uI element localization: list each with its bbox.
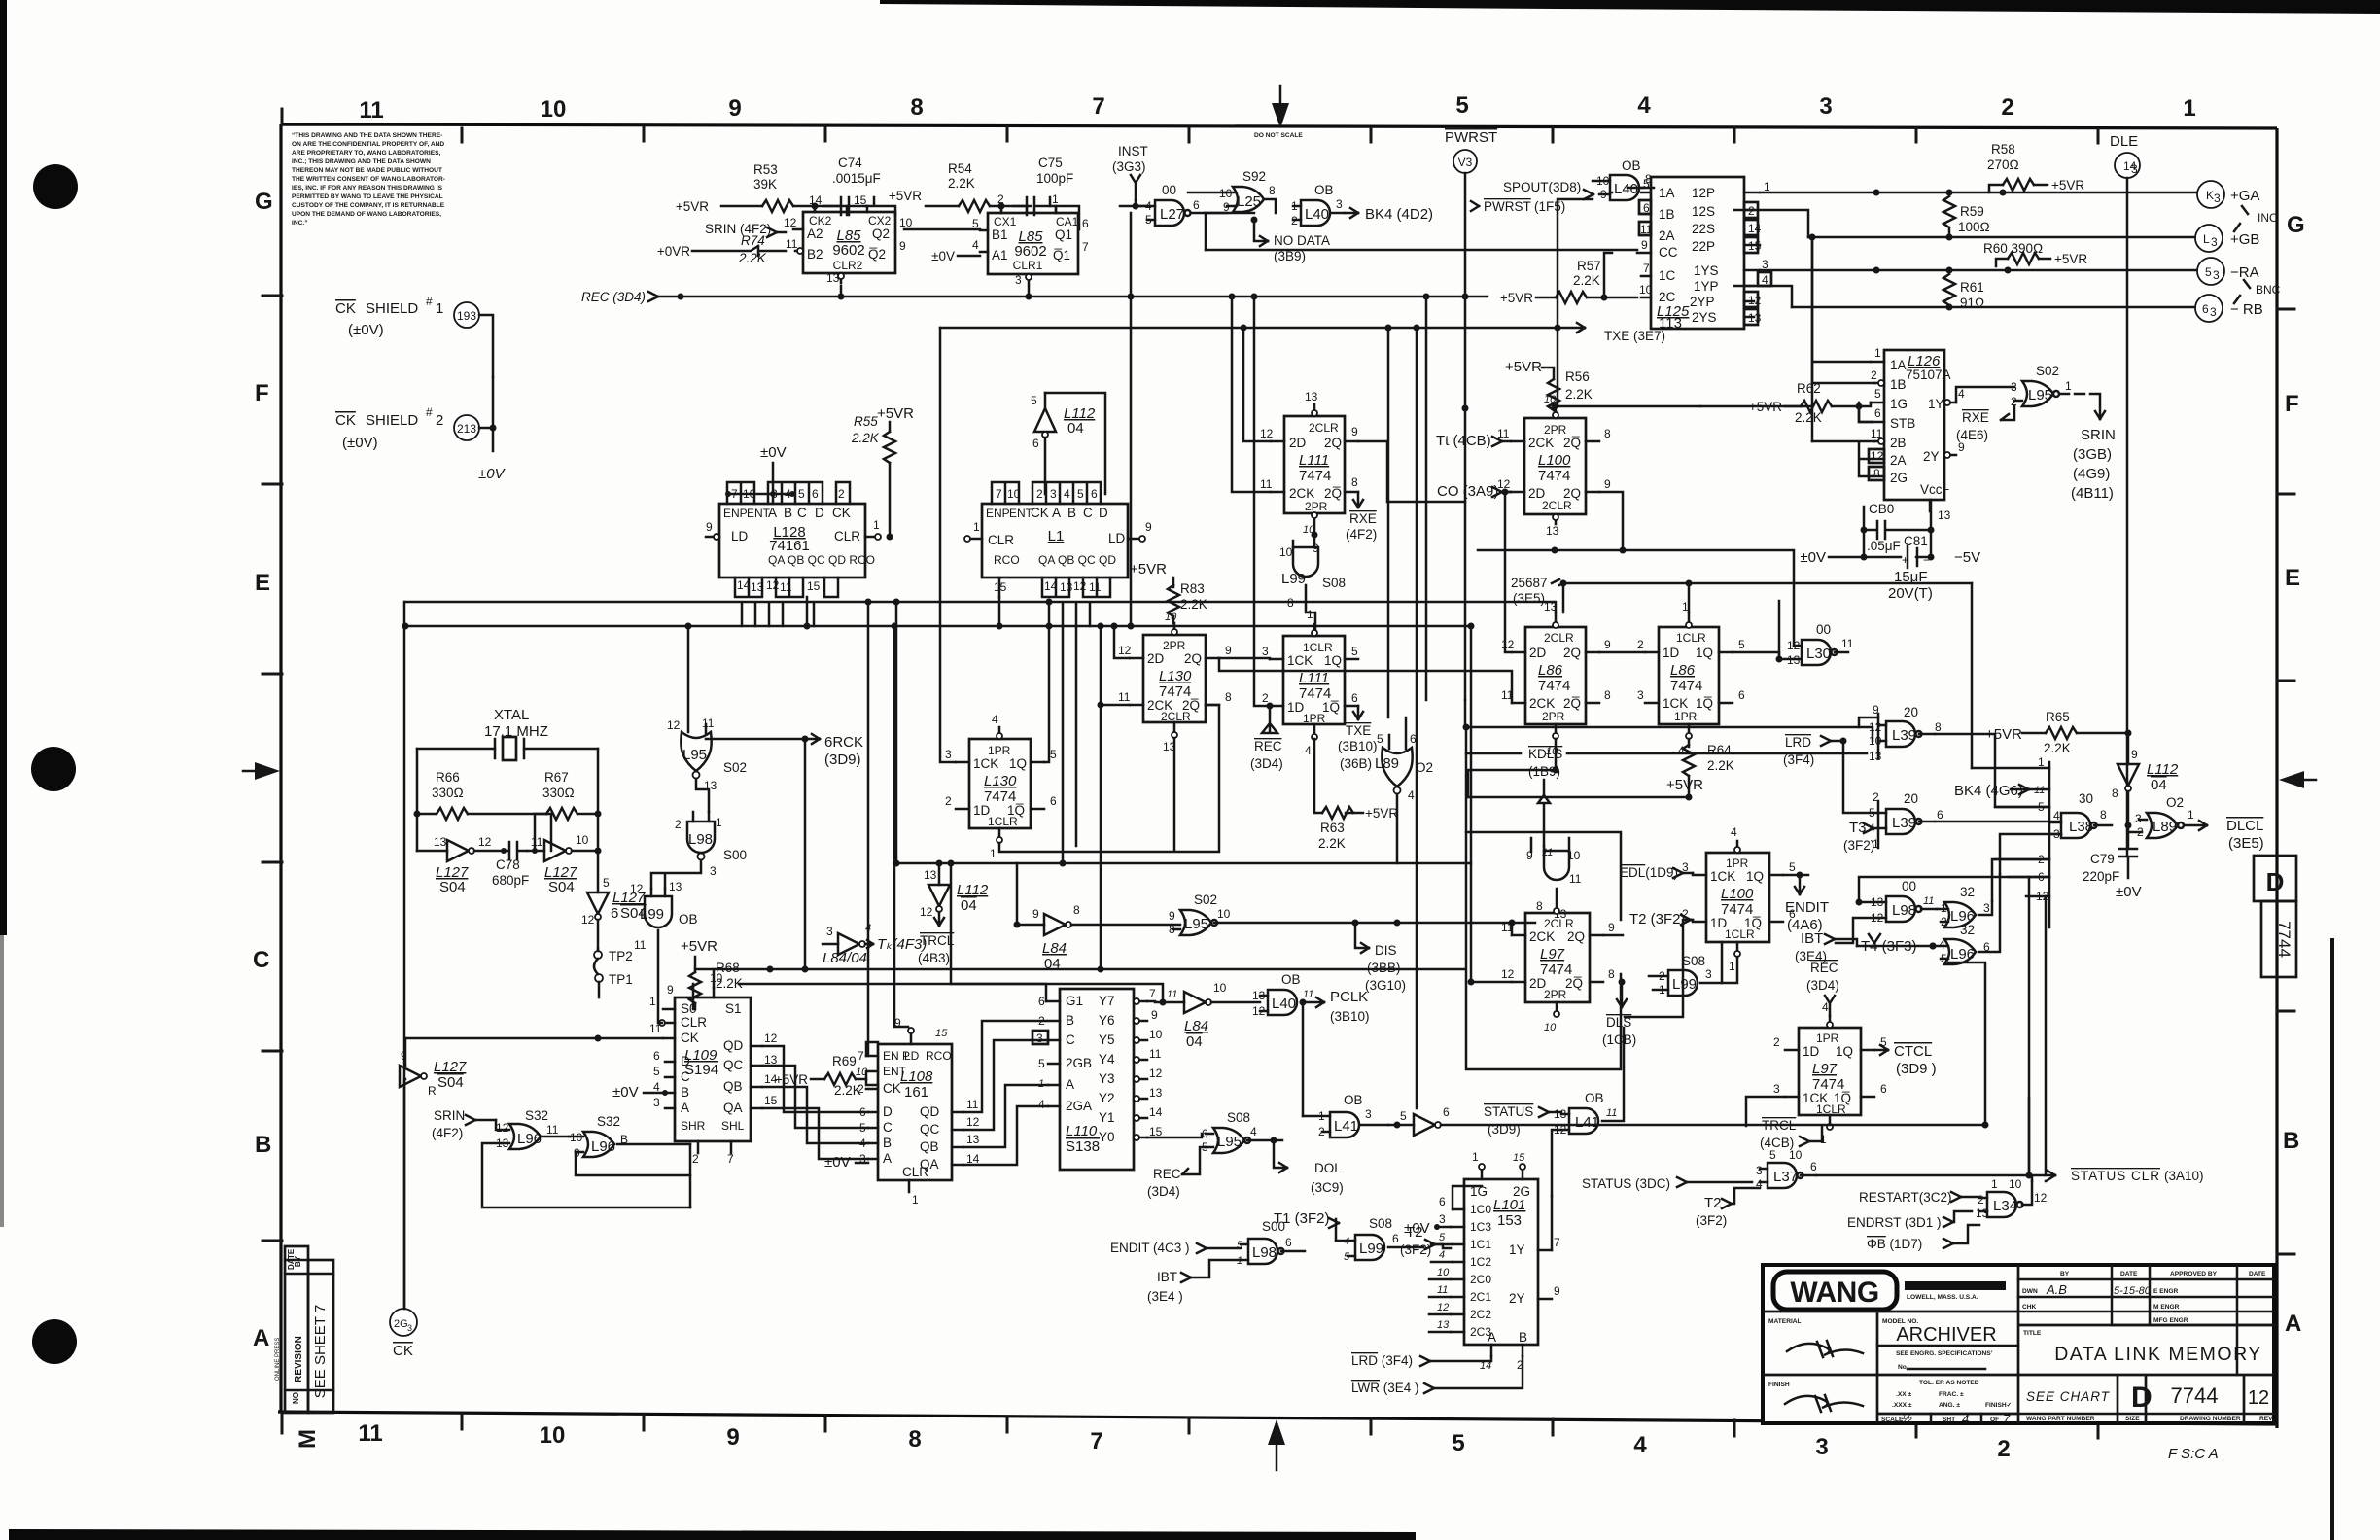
wire IBT T4 joins bbox=[1857, 945, 1933, 948]
wire DLCL line up to L96d bbox=[1948, 962, 1985, 1125]
svg-text:(3D9 ): (3D9 ) bbox=[1896, 1061, 1937, 1077]
svg-text:Y2: Y2 bbox=[1099, 1091, 1115, 1105]
node RESTART(3C2) bbox=[1859, 1190, 1979, 1205]
svg-text:(3F2): (3F2) bbox=[1843, 838, 1874, 853]
NOR L95 #2 vertical bbox=[667, 626, 747, 792]
svg-text:A: A bbox=[253, 1325, 269, 1351]
NOR L95 S08 (DOL) bbox=[1202, 1110, 1282, 1154]
svg-text:LD: LD bbox=[904, 1049, 920, 1063]
svg-text:.0015μF: .0015μF bbox=[832, 171, 881, 186]
wire L100a 2Q out bbox=[1599, 492, 1623, 550]
svg-text:3: 3 bbox=[2213, 268, 2220, 282]
svg-text:9: 9 bbox=[706, 520, 713, 534]
svg-text:4: 4 bbox=[1731, 825, 1737, 839]
node LRD (3F4) bbox=[1783, 735, 1847, 767]
svg-text:“THIS DRAWING AND THE DATA SHO: “THIS DRAWING AND THE DATA SHOWN THERE- bbox=[292, 132, 442, 139]
svg-text:+5VR: +5VR bbox=[676, 199, 709, 214]
wire L130a CLR joins bbox=[999, 705, 1219, 852]
svg-text:1: 1 bbox=[2038, 755, 2045, 769]
svg-text:M: M bbox=[295, 1429, 321, 1449]
svg-text:B: B bbox=[2283, 1128, 2299, 1154]
svg-text:V3: V3 bbox=[1458, 156, 1473, 169]
svg-text:LD: LD bbox=[731, 529, 749, 543]
svg-text:12: 12 bbox=[1871, 449, 1884, 463]
node KDLS (1B9) bbox=[1528, 747, 1562, 846]
wire L108 QD to L110 B bbox=[963, 1021, 1046, 1112]
svg-text:8: 8 bbox=[1536, 899, 1543, 913]
svg-text:STATUS: STATUS bbox=[1484, 1104, 1533, 1119]
svg-text:2: 2 bbox=[1036, 487, 1043, 501]
svg-text:(3B10): (3B10) bbox=[1338, 739, 1378, 753]
svg-text:11: 11 bbox=[780, 580, 792, 594]
svg-text:CK: CK bbox=[1031, 506, 1049, 520]
svg-text:1: 1 bbox=[436, 300, 443, 317]
svg-text:9: 9 bbox=[2131, 748, 2138, 761]
svg-text:2PR: 2PR bbox=[1305, 500, 1328, 513]
svg-text:10: 10 bbox=[1217, 907, 1231, 921]
svg-text:5: 5 bbox=[1738, 638, 1745, 651]
svg-text:20: 20 bbox=[1904, 791, 1918, 806]
svg-text:2CLR: 2CLR bbox=[1309, 421, 1339, 435]
svg-text:Q̅1: Q̅1 bbox=[1053, 248, 1070, 262]
svg-text:ENDRST (3D1 ): ENDRST (3D1 ) bbox=[1847, 1215, 1942, 1230]
node PWRST (1F5) out bbox=[1471, 199, 1565, 214]
svg-text:(±0V): (±0V) bbox=[348, 322, 384, 338]
svg-text:5: 5 bbox=[653, 1065, 660, 1078]
svg-text:L99: L99 bbox=[1359, 1241, 1383, 1257]
svg-text:IES, INC. IF FOR ANY REASON TH: IES, INC. IF FOR ANY REASON THIS DRAWING… bbox=[292, 185, 443, 192]
svg-text:1A: 1A bbox=[1659, 186, 1675, 200]
wire L108 QC to L110 C bbox=[963, 1040, 1048, 1130]
svg-text:2PR: 2PR bbox=[1544, 988, 1567, 1001]
svg-text:2: 2 bbox=[436, 412, 443, 429]
svg-text:2D: 2D bbox=[1147, 651, 1165, 666]
svg-text:LRD (3F4): LRD (3F4) bbox=[1351, 1353, 1413, 1368]
svg-text:7474: 7474 bbox=[1299, 468, 1331, 484]
svg-text:7: 7 bbox=[1149, 987, 1156, 1000]
node RXE (4F2) bbox=[1346, 492, 1377, 542]
wire L39b out to L38 pin4 bbox=[1935, 821, 2061, 823]
svg-text:PCLK: PCLK bbox=[1330, 989, 1368, 1005]
node REC (3D4) upper bbox=[1806, 961, 1839, 1016]
inverter L84 #2 bbox=[1014, 863, 1181, 972]
flip-flop L130 7474 (lowest) bbox=[945, 713, 1057, 860]
svg-text:2: 2 bbox=[1871, 368, 1877, 382]
svg-text:CK2: CK2 bbox=[809, 214, 832, 227]
svg-text:5: 5 bbox=[1455, 92, 1468, 119]
svg-text:FRAC. ±: FRAC. ± bbox=[1939, 1391, 1964, 1398]
svg-text:7474: 7474 bbox=[1538, 678, 1570, 694]
svg-text:2CLR: 2CLR bbox=[1542, 499, 1572, 512]
svg-text:LOWELL, MASS. U.S.A.: LOWELL, MASS. U.S.A. bbox=[1907, 1294, 1978, 1301]
svg-text:12P: 12P bbox=[1692, 186, 1715, 200]
shift register L109 S194 bbox=[649, 971, 778, 1166]
svg-text:(3GB): (3GB) bbox=[2073, 446, 2112, 463]
svg-text:TP1: TP1 bbox=[609, 972, 633, 987]
svg-text:2A: 2A bbox=[1659, 228, 1675, 243]
svg-text:D: D bbox=[815, 506, 824, 520]
svg-text:2Q: 2Q bbox=[1184, 651, 1202, 666]
svg-text:R65: R65 bbox=[2046, 710, 2070, 724]
svg-text:13: 13 bbox=[1060, 580, 1073, 594]
svg-text:R: R bbox=[428, 1084, 437, 1098]
flip-flop L86 7474 (left) bbox=[1501, 600, 1611, 757]
svg-text:6: 6 bbox=[1285, 1236, 1292, 1249]
svg-text:L110: L110 bbox=[1066, 1123, 1098, 1139]
svg-text:L38: L38 bbox=[2069, 819, 2093, 835]
svg-text:C: C bbox=[253, 947, 269, 973]
svg-text:A1: A1 bbox=[992, 248, 1008, 262]
node BK4 (4D2) out bbox=[1345, 206, 1433, 223]
svg-text:12: 12 bbox=[478, 835, 492, 849]
AND L99 #1 vertical bbox=[1293, 547, 1318, 577]
svg-text:ENDIT (4C3 ): ENDIT (4C3 ) bbox=[1110, 1241, 1190, 1255]
svg-text:7: 7 bbox=[1643, 262, 1650, 275]
svg-text:+5VR: +5VR bbox=[2051, 178, 2084, 192]
svg-text:(4E6): (4E6) bbox=[1956, 428, 1988, 442]
svg-text:Q2: Q2 bbox=[872, 227, 890, 241]
svg-text:DLE: DLE bbox=[2110, 133, 2138, 150]
svg-text:13: 13 bbox=[924, 868, 937, 882]
svg-text:1A: 1A bbox=[1890, 358, 1907, 372]
svg-text:+0VR: +0VR bbox=[657, 244, 690, 259]
svg-text:6: 6 bbox=[2202, 302, 2209, 316]
svg-text:2CLR: 2CLR bbox=[1544, 631, 1574, 645]
wire long vertical x1467 bbox=[1425, 297, 1428, 700]
svg-text:6: 6 bbox=[1810, 1160, 1817, 1173]
wire L86a 2Q to L86b 1D bbox=[1599, 651, 1645, 654]
svg-text:L95: L95 bbox=[2028, 387, 2052, 403]
node SRIN (3GB)(4G9)(4B11) bbox=[2059, 394, 2116, 502]
svg-text:L39: L39 bbox=[1892, 815, 1916, 831]
svg-text:6: 6 bbox=[1643, 201, 1650, 215]
svg-text:15: 15 bbox=[854, 193, 867, 207]
svg-text:+5VR: +5VR bbox=[1130, 561, 1167, 577]
svg-text:1: 1 bbox=[873, 518, 880, 532]
svg-text:9: 9 bbox=[1604, 638, 1611, 651]
material / model cells bbox=[1876, 1312, 1879, 1423]
wire L96d out to L38 pin3 bbox=[2000, 834, 2061, 874]
svg-text:2.2K: 2.2K bbox=[948, 176, 975, 191]
wire L99d out to L100b ICLR bbox=[1722, 957, 1737, 983]
svg-text:L111: L111 bbox=[1299, 452, 1329, 469]
wire TXE(3E7) trunk bbox=[940, 323, 1665, 762]
svg-text:220pF: 220pF bbox=[2082, 869, 2119, 884]
svg-text:ENDIT: ENDIT bbox=[1785, 899, 1829, 916]
wire 2B trunk to left bbox=[1811, 237, 1814, 441]
node T3 (3F2) bbox=[1843, 820, 1878, 853]
svg-text:2CK: 2CK bbox=[1529, 929, 1555, 944]
wire trunk T6 bbox=[1478, 550, 1794, 646]
svg-text:10: 10 bbox=[856, 1067, 868, 1078]
resistor R67 bbox=[535, 770, 602, 851]
svg-text:4: 4 bbox=[992, 713, 998, 726]
svg-text:S08: S08 bbox=[1322, 576, 1346, 590]
svg-text:M ENGR: M ENGR bbox=[2153, 1304, 2180, 1311]
svg-text:LD: LD bbox=[1108, 531, 1126, 545]
svg-text:2PR: 2PR bbox=[1544, 423, 1567, 437]
wire L109 S1 feed bbox=[713, 969, 716, 988]
svg-text:9: 9 bbox=[899, 239, 906, 253]
svg-text:A: A bbox=[768, 506, 777, 520]
resistor R66 bbox=[414, 770, 552, 851]
svg-text:10: 10 bbox=[899, 216, 913, 229]
svg-text:OB: OB bbox=[679, 912, 698, 927]
svg-text:12: 12 bbox=[496, 1121, 509, 1135]
svg-text:INC.”: INC.” bbox=[292, 220, 307, 227]
svg-text:2Q̅: 2Q̅ bbox=[1563, 696, 1581, 711]
svg-text:R55: R55 bbox=[854, 414, 878, 429]
svg-text:CK: CK bbox=[393, 1343, 413, 1359]
svg-text:13: 13 bbox=[434, 835, 447, 849]
wire L86b IPR R64 join bbox=[1688, 776, 1691, 797]
svg-text:9: 9 bbox=[1554, 1284, 1560, 1298]
svg-text:L37: L37 bbox=[1773, 1169, 1798, 1185]
svg-text:1PR: 1PR bbox=[1674, 710, 1697, 723]
svg-text:O2: O2 bbox=[2166, 795, 2184, 810]
svg-text:BY: BY bbox=[2060, 1271, 2070, 1277]
svg-text:9: 9 bbox=[728, 95, 741, 122]
resistor R63 bbox=[1314, 739, 1398, 851]
counter L108 161 bbox=[856, 1016, 980, 1207]
svg-text:½: ½ bbox=[1902, 1411, 1912, 1425]
svg-text:L89: L89 bbox=[2152, 819, 2177, 835]
svg-text:C75: C75 bbox=[1038, 156, 1063, 170]
svg-text:1: 1 bbox=[1052, 192, 1059, 206]
svg-text:6: 6 bbox=[1392, 1232, 1399, 1245]
svg-text:7: 7 bbox=[1090, 1428, 1102, 1454]
wire L110 G1 feed bbox=[951, 863, 1046, 1001]
svg-text:S32: S32 bbox=[597, 1114, 620, 1129]
svg-text:ΦB (1D7): ΦB (1D7) bbox=[1867, 1237, 1922, 1251]
svg-text:SHT: SHT bbox=[1942, 1417, 1955, 1423]
svg-text:1G: 1G bbox=[1890, 397, 1907, 411]
svg-text:TXE: TXE bbox=[1346, 723, 1371, 738]
svg-text:3: 3 bbox=[1365, 1107, 1372, 1121]
svg-text:QD: QD bbox=[723, 1038, 744, 1053]
svg-text:Y6: Y6 bbox=[1099, 1013, 1115, 1028]
svg-text:1D: 1D bbox=[1802, 1044, 1820, 1059]
svg-text:2CLR: 2CLR bbox=[1544, 917, 1574, 930]
node T1 (3F2) bbox=[1274, 1210, 1339, 1228]
wire CK vertical bbox=[403, 602, 406, 1309]
svg-text:2: 2 bbox=[1637, 638, 1644, 651]
svg-text:ANG. ±: ANG. ± bbox=[1939, 1402, 1960, 1409]
svg-text:3: 3 bbox=[1773, 1082, 1780, 1096]
svg-text:6: 6 bbox=[1880, 1082, 1887, 1096]
node PCLK (3B10) bbox=[1330, 989, 1370, 1024]
node DIS (3BB)(3G10) bbox=[1352, 920, 1407, 994]
svg-text:11: 11 bbox=[1606, 1107, 1617, 1119]
node PWRST (V3) bbox=[1445, 129, 1497, 731]
svg-text:5: 5 bbox=[2205, 265, 2212, 279]
confidentiality notice bbox=[292, 132, 445, 227]
svg-text:REVISION: REVISION bbox=[294, 1336, 304, 1382]
node BK4 (4G6) bbox=[1954, 783, 2029, 799]
wire CO vertical to L86a 2D bbox=[1505, 492, 1512, 652]
svg-text:R54: R54 bbox=[948, 161, 972, 176]
wire L39a input bar bbox=[1877, 714, 1880, 758]
flip-flop L111 7474 (lower) bbox=[1262, 608, 1358, 757]
svg-text:PWRST: PWRST bbox=[1484, 199, 1531, 214]
wire L34 out up bbox=[2031, 1175, 2034, 1181]
wire L130a 2CK feed bbox=[1101, 626, 1130, 967]
node 6RCK (3D9) bbox=[706, 734, 863, 968]
svg-text:5: 5 bbox=[1050, 748, 1057, 761]
svg-text:12: 12 bbox=[766, 578, 780, 592]
svg-text:2Q: 2Q bbox=[1324, 436, 1342, 450]
wire L109 QD to L108 D bbox=[762, 1046, 868, 1112]
svg-text:REC: REC bbox=[1254, 739, 1282, 753]
svg-text:1CK: 1CK bbox=[1662, 696, 1688, 711]
svg-text:CB0: CB0 bbox=[1869, 502, 1894, 516]
svg-text:32: 32 bbox=[1960, 923, 1975, 937]
wire L27 out to L25/L40 bbox=[1120, 192, 1254, 213]
node IBT (3E4) bbox=[1795, 930, 1857, 963]
svg-text:±0V: ±0V bbox=[1800, 549, 1826, 566]
svg-text:#: # bbox=[426, 405, 433, 419]
svg-text:(4G9): (4G9) bbox=[2073, 466, 2110, 482]
svg-text:S02: S02 bbox=[2036, 364, 2059, 378]
svg-text:INC.; THIS DRAWING AND THE DAT: INC.; THIS DRAWING AND THE DATA SHOWN bbox=[292, 158, 431, 165]
svg-text:8: 8 bbox=[2100, 808, 2107, 822]
svg-text:L97: L97 bbox=[1540, 946, 1565, 962]
wire right trunk y748 bbox=[1466, 727, 1872, 832]
svg-text:12S: 12S bbox=[1692, 204, 1715, 219]
svg-text:(3G10): (3G10) bbox=[1365, 978, 1406, 993]
svg-text:OB: OB bbox=[1281, 972, 1301, 987]
svg-text:L99: L99 bbox=[1281, 571, 1306, 587]
svg-text:1CK: 1CK bbox=[1710, 869, 1735, 884]
svg-text:CK: CK bbox=[681, 1031, 699, 1045]
NAND L34 bbox=[1976, 1177, 2047, 1220]
svg-text:QA QB QC QD RCO: QA QB QC QD RCO bbox=[768, 553, 875, 567]
svg-text:13: 13 bbox=[1869, 750, 1882, 763]
svg-text:CLR: CLR bbox=[988, 533, 1014, 547]
svg-text:(3D4): (3D4) bbox=[1806, 978, 1839, 993]
svg-text:±0V: ±0V bbox=[478, 466, 507, 482]
resistor R57 bbox=[1500, 253, 1637, 305]
svg-text:15: 15 bbox=[1748, 239, 1762, 253]
wire trunk T1 bbox=[405, 602, 1556, 612]
ground REC (3D4) symbol bbox=[1250, 703, 1283, 772]
left fold arrow bbox=[255, 762, 280, 780]
svg-text:213: 213 bbox=[457, 422, 476, 436]
svg-text:12: 12 bbox=[630, 882, 644, 895]
svg-text:STATUS CLR: STATUS CLR bbox=[2071, 1169, 2160, 1183]
svg-text:13: 13 bbox=[1938, 508, 1951, 522]
svg-text:7: 7 bbox=[857, 1049, 864, 1063]
NAND L98 S00 bbox=[1237, 1219, 1305, 1267]
svg-text:(3D4): (3D4) bbox=[1147, 1184, 1180, 1199]
wire L98 out to L99 bbox=[651, 860, 701, 889]
svg-text:5: 5 bbox=[1031, 394, 1037, 407]
svg-text:6: 6 bbox=[1091, 487, 1098, 501]
svg-text:2.2K: 2.2K bbox=[738, 251, 767, 265]
svg-text:3: 3 bbox=[2131, 162, 2138, 176]
svg-text:4: 4 bbox=[1822, 1000, 1829, 1014]
svg-text:+5VR: +5VR bbox=[889, 189, 922, 203]
svg-text:3: 3 bbox=[1050, 487, 1057, 501]
svg-text:2.2K: 2.2K bbox=[834, 1083, 861, 1098]
OR L96 #2 bbox=[569, 1114, 690, 1160]
svg-text:8: 8 bbox=[908, 1426, 921, 1452]
wire trunk T2 bbox=[405, 625, 1471, 628]
svg-text:E: E bbox=[2285, 565, 2300, 591]
svg-text:25687: 25687 bbox=[1511, 576, 1548, 590]
svg-text:+5VR: +5VR bbox=[1500, 291, 1533, 305]
node REC (3D4) trunk bbox=[581, 286, 1487, 304]
wire R56 row to L126 area bbox=[1700, 405, 1812, 408]
AND L41 #2 (status) bbox=[1554, 1028, 1624, 1137]
svg-text:1Q: 1Q bbox=[1836, 1044, 1853, 1059]
svg-text:R69: R69 bbox=[832, 1054, 857, 1068]
svg-text:2Y: 2Y bbox=[1509, 1291, 1525, 1306]
svg-text:NO DATA: NO DATA bbox=[1274, 233, 1330, 248]
svg-text:STB: STB bbox=[1890, 416, 1915, 431]
svg-text:C79: C79 bbox=[2090, 852, 2115, 866]
svg-text:11: 11 bbox=[1260, 477, 1273, 491]
svg-text:6: 6 bbox=[1351, 691, 1358, 705]
svg-text:STATUS (3DC): STATUS (3DC) bbox=[1582, 1176, 1670, 1191]
svg-text:CLR2: CLR2 bbox=[833, 259, 863, 272]
svg-text:1PR: 1PR bbox=[988, 744, 1011, 757]
svg-text:L: L bbox=[2203, 232, 2210, 246]
svg-text:S194: S194 bbox=[684, 1062, 718, 1078]
inverter L112 #3 vertical bbox=[2112, 733, 2179, 821]
svg-text:BK4 (4G6): BK4 (4G6) bbox=[1954, 783, 2023, 799]
svg-text:S00: S00 bbox=[723, 848, 747, 862]
svg-text:2: 2 bbox=[1997, 1436, 2010, 1462]
svg-text:L40: L40 bbox=[1614, 181, 1638, 197]
node CTCL (3D9) bbox=[1874, 1043, 1937, 1077]
by/date grid bbox=[1763, 1265, 2274, 1375]
wire trunk T11 PWRST bbox=[1465, 700, 1878, 727]
svg-text:3: 3 bbox=[653, 1096, 660, 1109]
svg-text:E: E bbox=[255, 570, 270, 596]
svg-text:12: 12 bbox=[1501, 638, 1515, 651]
svg-text:5: 5 bbox=[1038, 1057, 1045, 1070]
wire KDLS to L29 bbox=[1543, 846, 1546, 852]
IC L125/113 line driver bbox=[1637, 177, 1771, 332]
flip-flop L100 7474 (lower) bbox=[1682, 825, 1796, 973]
svg-text:5: 5 bbox=[1377, 732, 1383, 746]
svg-text:7: 7 bbox=[1092, 93, 1104, 120]
node CK SHIELD #1 bbox=[335, 295, 493, 377]
svg-text:S32: S32 bbox=[525, 1108, 548, 1123]
svg-text:1: 1 bbox=[1729, 960, 1735, 973]
svg-text:2CK: 2CK bbox=[1289, 486, 1314, 501]
svg-text:L84: L84 bbox=[1042, 940, 1067, 957]
inverter L127 #3 vertical bbox=[581, 851, 647, 949]
svg-text:9602: 9602 bbox=[832, 242, 864, 259]
resistor R59 bbox=[1943, 196, 1990, 237]
svg-text:6: 6 bbox=[611, 905, 618, 922]
svg-text:WANG: WANG bbox=[1790, 1277, 1878, 1309]
svg-text:PERMITTED BY WANG TO LEAVE THE: PERMITTED BY WANG TO LEAVE THE PHYSICAL bbox=[292, 193, 443, 200]
svg-text:SRIN: SRIN bbox=[434, 1108, 465, 1123]
wire L97a 2D feed bbox=[1471, 863, 1512, 982]
wire L95b to L98 bbox=[696, 779, 709, 812]
svg-text:L86: L86 bbox=[1670, 662, 1696, 679]
svg-text:2.2K: 2.2K bbox=[1573, 273, 1600, 288]
top grid numbers bbox=[359, 92, 2195, 123]
svg-text:00: 00 bbox=[1902, 879, 1916, 893]
svg-text:C: C bbox=[1066, 1032, 1075, 1047]
wire L111a 2CK feed bbox=[1232, 297, 1271, 492]
svg-text:RCO: RCO bbox=[926, 1049, 952, 1063]
svg-text:6: 6 bbox=[1937, 808, 1943, 822]
